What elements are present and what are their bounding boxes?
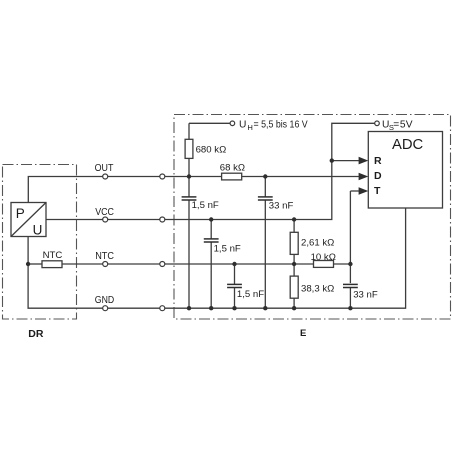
wire T line: node to ADC T input bbox=[350, 190, 359, 192]
terminal circle UH supply bbox=[230, 121, 235, 126]
svg-text:DR: DR bbox=[28, 328, 44, 340]
wire VCC net: sensor right to vertical riser bbox=[46, 123, 375, 219]
wire NTC to capacitor C4 bbox=[234, 264, 236, 284]
svg-text:33 nF: 33 nF bbox=[269, 201, 294, 212]
terminal circle GND plug left bbox=[103, 306, 108, 311]
resistor 68 kOhm bbox=[222, 173, 242, 180]
svg-text:T: T bbox=[374, 185, 381, 197]
capacitor C4 1,5 nF plates bbox=[227, 283, 242, 285]
wire UH supply stub bbox=[189, 122, 230, 124]
wire C4 bottom to ground rail bbox=[234, 288, 236, 309]
svg-text:OUT: OUT bbox=[95, 162, 114, 174]
capacitor C3 1,5 nF plates bbox=[204, 238, 219, 240]
svg-text:VCC: VCC bbox=[95, 206, 114, 218]
junction dot VCC/2,61k bbox=[292, 217, 296, 221]
junction dot GND C5 bbox=[348, 306, 352, 310]
svg-text:U: U bbox=[239, 119, 246, 130]
svg-text:GND: GND bbox=[95, 294, 115, 306]
wire C5 bottom to ground rail bbox=[349, 287, 351, 308]
junction dot GND C4 bbox=[232, 306, 236, 310]
svg-text:D: D bbox=[374, 170, 382, 182]
terminal circle VCC plug left bbox=[103, 217, 108, 222]
wire C2 bottom to ground rail bbox=[264, 200, 266, 308]
junction dot NTC left bbox=[26, 262, 30, 266]
svg-text:U: U bbox=[33, 222, 43, 237]
resistor 10 kOhm bbox=[314, 261, 334, 268]
wire 2,61k to NTC line bbox=[293, 254, 295, 276]
svg-text:10 kΩ: 10 kΩ bbox=[311, 252, 336, 263]
svg-text:P: P bbox=[16, 206, 25, 221]
terminal circle OUT plug left bbox=[103, 174, 108, 179]
svg-text:1,5 nF: 1,5 nF bbox=[214, 244, 241, 255]
junction dot GND 680k column bbox=[187, 306, 191, 310]
terminal circle NTC plug left bbox=[103, 262, 108, 267]
resistor 680 kOhm bbox=[185, 139, 193, 158]
svg-text:=5V: =5V bbox=[393, 119, 412, 130]
terminal circle NTC plug right bbox=[160, 262, 165, 267]
wire C1 bottom to ground rail bbox=[188, 200, 190, 308]
arrow into ADC pin T bbox=[359, 187, 369, 195]
junction dot GND C2 bbox=[263, 306, 267, 310]
wire C3 bottom to ground rail bbox=[210, 242, 212, 308]
junction dot D/C2 bbox=[263, 174, 267, 178]
wire OUT net: sensor top to ADC D input bbox=[28, 177, 359, 203]
svg-text:1,5 nF: 1,5 nF bbox=[237, 289, 264, 300]
svg-text:NTC: NTC bbox=[43, 250, 63, 261]
wire 680k column: top rail to resistor bbox=[188, 123, 190, 139]
svg-text:NTC: NTC bbox=[95, 250, 114, 262]
junction dot NTC/C4 bbox=[232, 262, 236, 266]
capacitor C5 33 nF plates bbox=[343, 283, 358, 285]
arrow into ADC pin D bbox=[359, 173, 369, 181]
junction dot NTC/resistor column bbox=[292, 262, 296, 266]
svg-text:1,5 nF: 1,5 nF bbox=[192, 200, 219, 211]
junction dot NTC/T node bbox=[348, 262, 352, 266]
wire D line to capacitor C2 bbox=[264, 177, 266, 197]
wire T node riser bbox=[349, 191, 351, 283]
sensor assembly boundary box DR bbox=[3, 165, 77, 320]
svg-text:H: H bbox=[247, 123, 252, 132]
capacitor C2 33 nF plates bbox=[258, 196, 273, 198]
svg-text:68 kΩ: 68 kΩ bbox=[220, 163, 245, 174]
terminal circle US supply bbox=[375, 121, 380, 126]
wire NTC net middle segment bbox=[62, 263, 314, 265]
arrow into ADC pin R bbox=[359, 157, 369, 165]
junction dot GND 38,3k bbox=[292, 306, 296, 310]
wire 38,3k to ground rail bbox=[293, 298, 295, 308]
svg-text:33 nF: 33 nF bbox=[353, 290, 378, 301]
svg-text:ADC: ADC bbox=[392, 137, 424, 153]
wire R line: 5V riser to ADC R input bbox=[332, 160, 359, 162]
wire 680k bottom to capacitor C1 bbox=[188, 158, 190, 196]
resistor 38,3 kOhm bbox=[290, 276, 298, 298]
IC ADC box bbox=[368, 132, 442, 209]
wire NTC net left segment bbox=[28, 263, 42, 265]
svg-text:2,61 kΩ: 2,61 kΩ bbox=[301, 238, 334, 249]
resistor NTC bbox=[42, 261, 62, 268]
wire VCC to resistor 2,61k bbox=[293, 220, 295, 233]
sensor P/U diagonal bbox=[11, 203, 46, 237]
ECU boundary box E bbox=[174, 115, 451, 320]
svg-text:R: R bbox=[374, 155, 382, 167]
svg-text:= 5,5 bis 16 V: = 5,5 bis 16 V bbox=[254, 119, 308, 130]
capacitor C1 1,5 nF plates bbox=[182, 196, 197, 198]
junction dot OUT/680k bbox=[187, 174, 191, 178]
junction dot GND C3 bbox=[209, 306, 213, 310]
wire GND net: sensor bottom along ground rail up to ADC bottom bbox=[28, 208, 406, 308]
resistor 2,61 kOhm bbox=[290, 232, 298, 254]
svg-text:38,3 kΩ: 38,3 kΩ bbox=[301, 283, 334, 294]
terminal circle OUT plug right bbox=[160, 174, 165, 179]
terminal circle VCC plug right bbox=[160, 217, 165, 222]
sensor element P/U box bbox=[11, 203, 46, 237]
svg-text:680 kΩ: 680 kΩ bbox=[196, 145, 227, 156]
terminal circle GND plug right bbox=[160, 306, 165, 311]
junction dot R line bbox=[330, 158, 334, 162]
junction dot VCC/C3 bbox=[209, 217, 213, 221]
svg-text:E: E bbox=[300, 328, 306, 339]
wire VCC to capacitor C3 bbox=[210, 220, 212, 239]
wire NTC net right segment to T node bbox=[334, 263, 351, 265]
